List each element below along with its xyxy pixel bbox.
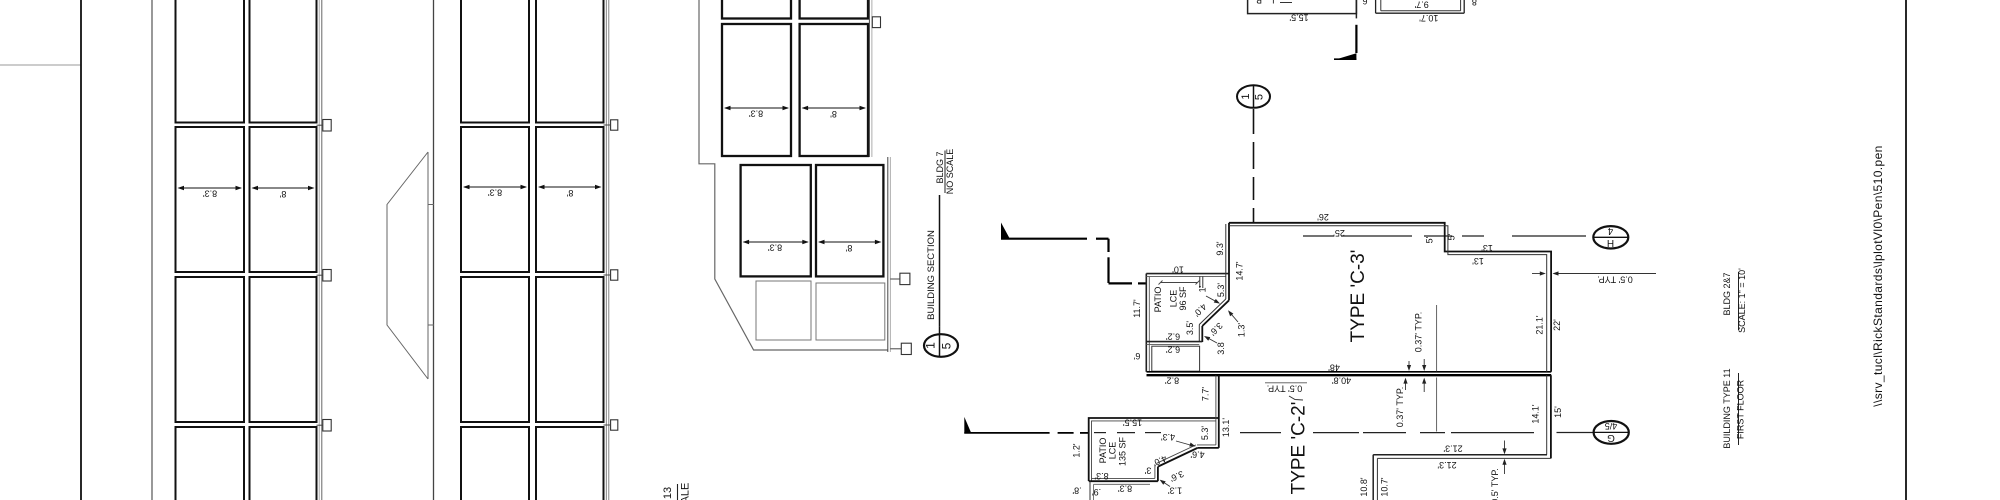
svg-text:48': 48' — [1328, 363, 1340, 373]
svg-text:14.7': 14.7' — [1234, 261, 1244, 281]
svg-text:0.5' TYP.: 0.5' TYP. — [1597, 275, 1632, 285]
svg-text:10.8': 10.8' — [1359, 477, 1369, 497]
svg-text:13.1': 13.1' — [1221, 418, 1231, 438]
svg-text:5.3': 5.3' — [1200, 426, 1210, 441]
svg-text:1: 1 — [924, 342, 938, 349]
svg-text:96 SF: 96 SF — [1178, 286, 1188, 311]
svg-text:4: 4 — [1607, 225, 1613, 236]
svg-text:13': 13' — [1481, 243, 1493, 253]
svg-text:135 SF: 135 SF — [1117, 436, 1127, 466]
svg-text:TYPE 'C-3': TYPE 'C-3' — [1348, 250, 1369, 343]
svg-text:13: 13 — [662, 487, 674, 499]
svg-text:8.3': 8.3' — [749, 109, 764, 119]
svg-text:8: 8 — [1472, 0, 1477, 7]
svg-text:6: 6 — [1362, 0, 1367, 6]
svg-text:ALE: ALE — [679, 483, 691, 500]
svg-text:14.1': 14.1' — [1530, 404, 1540, 424]
svg-text:21.3': 21.3' — [1437, 460, 1457, 470]
svg-text:21.3': 21.3' — [1443, 444, 1463, 454]
svg-text:0.37' TYP.: 0.37' TYP. — [1413, 312, 1423, 352]
svg-text:15.5': 15.5' — [1123, 418, 1143, 428]
svg-text:11.7': 11.7' — [1132, 299, 1142, 318]
svg-text:8': 8' — [566, 188, 573, 198]
svg-text:0.5' TYP.: 0.5' TYP. — [1490, 468, 1500, 500]
svg-text:BLDG 7: BLDG 7 — [935, 151, 945, 183]
svg-text:BLDG 2&7: BLDG 2&7 — [1722, 272, 1732, 315]
svg-text:\\srv_tucl\RickStandards\lplot: \\srv_tucl\RickStandards\lplotVl0\Pen\51… — [1871, 145, 1885, 406]
svg-text:4/5: 4/5 — [1605, 421, 1618, 431]
svg-text:NO SCALE: NO SCALE — [945, 149, 955, 195]
svg-text:15': 15' — [1553, 406, 1563, 418]
svg-text:6.2': 6.2' — [1166, 332, 1181, 342]
svg-text:8.2': 8.2' — [1165, 376, 1180, 386]
svg-text:8.3': 8.3' — [1118, 484, 1133, 494]
svg-text:8.3': 8.3' — [1094, 471, 1109, 481]
svg-text:.8': .8' — [1072, 486, 1082, 496]
svg-text:8.3': 8.3' — [768, 243, 783, 253]
svg-text:8': 8' — [845, 243, 852, 253]
svg-text:8': 8' — [830, 109, 837, 119]
svg-text:40.8': 40.8' — [1332, 376, 1352, 386]
svg-text:10': 10' — [1172, 265, 1184, 275]
svg-text:3.5': 3.5' — [1185, 321, 1195, 336]
svg-text:G: G — [1607, 432, 1615, 443]
svg-text:1': 1' — [1197, 285, 1207, 292]
svg-text:6': 6' — [1133, 351, 1140, 361]
svg-text:13': 13' — [1472, 256, 1484, 266]
svg-text:3': 3' — [1144, 466, 1151, 476]
svg-text:BUILDING SECTION: BUILDING SECTION — [926, 230, 937, 320]
svg-text:B: B — [1256, 0, 1262, 5]
svg-text:8.3': 8.3' — [488, 188, 503, 198]
svg-text:FIRST FLOOR: FIRST FLOOR — [1735, 379, 1745, 439]
svg-text:22': 22' — [1552, 319, 1562, 331]
svg-text:25': 25' — [1333, 228, 1345, 238]
svg-text:LCE: LCE — [1168, 290, 1178, 308]
svg-text:7.7': 7.7' — [1200, 387, 1210, 402]
svg-text:5: 5 — [1253, 94, 1265, 100]
svg-text:H: H — [1607, 237, 1614, 248]
svg-text:PATIO: PATIO — [1153, 287, 1163, 313]
svg-text:0.5' TYP.: 0.5' TYP. — [1267, 384, 1302, 394]
svg-text:10.7': 10.7' — [1419, 13, 1439, 23]
svg-text:9.7': 9.7' — [1414, 0, 1429, 10]
svg-text:0.37' TYP.: 0.37' TYP. — [1395, 387, 1405, 427]
svg-text:21.1': 21.1' — [1534, 315, 1544, 335]
svg-text:1.2': 1.2' — [1071, 443, 1081, 458]
svg-text:5: 5 — [940, 342, 954, 349]
svg-text:BUILDING TYPE 11: BUILDING TYPE 11 — [1722, 368, 1732, 448]
svg-text:SCALE: 1" = 10': SCALE: 1" = 10' — [1737, 268, 1747, 333]
svg-text:.9': .9' — [1092, 487, 1102, 497]
svg-text:1: 1 — [1240, 93, 1252, 99]
svg-text:1.3': 1.3' — [1168, 486, 1183, 496]
svg-text:26': 26' — [1317, 212, 1329, 222]
svg-text:5': 5' — [1446, 233, 1456, 240]
svg-text:6.2': 6.2' — [1166, 345, 1181, 355]
svg-text:9.3': 9.3' — [1215, 241, 1225, 256]
svg-text:L: L — [1269, 0, 1274, 5]
svg-text:8': 8' — [279, 189, 286, 199]
svg-text:15.5': 15.5' — [1289, 12, 1309, 22]
svg-text:3.8: 3.8 — [1216, 342, 1226, 355]
svg-text:1.3': 1.3' — [1236, 323, 1246, 338]
svg-text:10.7': 10.7' — [1379, 477, 1389, 497]
svg-text:5': 5' — [1424, 236, 1434, 243]
svg-text:TYPE 'C-2': TYPE 'C-2' — [1289, 402, 1310, 495]
svg-text:5.3': 5.3' — [1216, 283, 1226, 298]
svg-text:8.3': 8.3' — [203, 189, 218, 199]
svg-text:4.6': 4.6' — [1190, 450, 1205, 460]
svg-text:4.3': 4.3' — [1161, 432, 1176, 442]
svg-text:LCE: LCE — [1107, 442, 1117, 460]
